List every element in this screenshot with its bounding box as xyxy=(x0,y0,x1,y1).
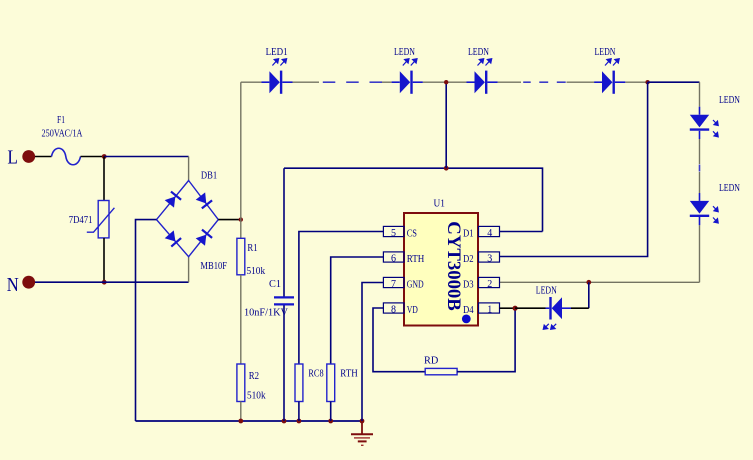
IC U1 CYT3000B body xyxy=(404,198,478,325)
svg-text:510k: 510k xyxy=(247,391,266,402)
varistor RV 7D471 xyxy=(69,201,115,238)
diode D-BL of bridge xyxy=(164,230,181,247)
diode D-BR of bridge xyxy=(195,230,212,246)
wire LEDN bottom to junction column xyxy=(571,307,589,309)
svg-text:10nF/1KV: 10nF/1KV xyxy=(244,308,289,319)
svg-text:3: 3 xyxy=(487,253,492,264)
wire junction down to LED cathode row xyxy=(588,282,590,308)
wire bridge top stub xyxy=(188,157,190,182)
junction LED row mid xyxy=(444,80,448,84)
wire bridge right to junction xyxy=(218,219,241,221)
wire varistor top lead xyxy=(103,157,105,201)
svg-text:L: L xyxy=(7,147,18,169)
svg-text:LED1: LED1 xyxy=(266,47,288,58)
svg-text:2: 2 xyxy=(487,279,492,290)
svg-text:D4: D4 xyxy=(463,304,474,316)
pin box 7 xyxy=(383,277,404,289)
wire tap up to LED row xyxy=(445,82,447,168)
svg-text:7: 7 xyxy=(391,279,396,290)
wire pin1 to LEDN bottom xyxy=(515,307,545,309)
svg-text:LEDN: LEDN xyxy=(595,47,616,58)
junction LED row tap xyxy=(444,166,449,171)
svg-text:LEDN: LEDN xyxy=(468,47,489,58)
svg-text:LEDN: LEDN xyxy=(719,95,740,106)
svg-text:C1: C1 xyxy=(269,279,281,290)
wire C1 top to D1 column xyxy=(284,168,543,231)
svg-text:RC8: RC8 xyxy=(308,368,323,379)
svg-text:MB10F: MB10F xyxy=(200,261,227,272)
dashed wire segment 1 xyxy=(323,81,382,83)
svg-text:RTH: RTH xyxy=(407,253,425,265)
svg-text:F1: F1 xyxy=(57,115,65,126)
svg-text:GND: GND xyxy=(407,278,424,290)
svg-text:6: 6 xyxy=(391,253,396,264)
svg-text:D1: D1 xyxy=(463,227,474,239)
junction rail R2 xyxy=(238,419,243,424)
svg-text:4: 4 xyxy=(487,228,492,239)
terminal L xyxy=(7,147,35,169)
pin box 5 xyxy=(383,226,404,238)
svg-text:RTH: RTH xyxy=(340,368,358,379)
junction rail ground xyxy=(360,419,365,424)
svg-text:VD: VD xyxy=(407,304,418,316)
wire D3 row (pin2 to right string) xyxy=(500,281,700,283)
junction LED row right xyxy=(645,80,649,84)
wire fuse to junction xyxy=(81,156,105,158)
svg-text:R2: R2 xyxy=(249,371,259,382)
LED LEDN right1 xyxy=(690,95,740,139)
LED LEDN top2 xyxy=(392,47,423,94)
junction rail RTH xyxy=(328,419,333,424)
fuse F1 xyxy=(42,115,84,165)
LED LEDN right2 xyxy=(690,183,740,225)
svg-text:8: 8 xyxy=(391,304,396,315)
svg-text:1: 1 xyxy=(487,304,492,315)
svg-text:LEDN: LEDN xyxy=(394,47,415,58)
dashed wire segment 2 xyxy=(523,81,566,83)
LED LEDN bottom xyxy=(536,286,571,330)
svg-text:D2: D2 xyxy=(463,253,474,265)
svg-text:5: 5 xyxy=(391,228,396,239)
junction bridge plus node xyxy=(239,217,243,221)
junction pin1 node xyxy=(513,306,518,311)
svg-text:7D471: 7D471 xyxy=(69,215,93,226)
bridge rectifier DB1 diamond xyxy=(157,171,228,272)
ground rail xyxy=(136,420,363,422)
wire pin8 VD to RD xyxy=(373,308,425,372)
junction L-varistor xyxy=(102,154,107,159)
svg-text:LEDN: LEDN xyxy=(536,286,557,297)
wire RTH to rail xyxy=(330,402,332,422)
wire L to fuse xyxy=(35,156,52,158)
svg-text:LEDN: LEDN xyxy=(719,183,740,194)
pin box 8 xyxy=(383,303,404,315)
resistor RTH xyxy=(327,364,358,402)
junction rail RC8 xyxy=(297,419,302,424)
svg-text:DB1: DB1 xyxy=(201,171,217,182)
pin box 2 xyxy=(479,277,500,289)
svg-text:N: N xyxy=(7,274,19,296)
wire bridge bottom stub xyxy=(188,257,190,283)
wire pin5 CS xyxy=(299,232,384,365)
wire pin4 to D1 column xyxy=(500,231,543,233)
resistor R2 510k xyxy=(237,364,266,402)
junction rail C1 xyxy=(282,419,287,424)
IC pin1 marker dot xyxy=(462,315,471,324)
pin box 3 xyxy=(479,252,500,264)
wire plus column up to LED row xyxy=(240,82,242,219)
pin box 6 xyxy=(383,252,404,264)
wire RC8 to rail xyxy=(298,402,300,422)
wire varistor bottom lead xyxy=(103,238,105,282)
svg-text:CS: CS xyxy=(407,227,417,239)
wire junction to bridge top column xyxy=(104,156,188,158)
LED LEDN top3 xyxy=(467,47,498,94)
wire D2 column xyxy=(500,82,648,256)
right string vertical wires xyxy=(699,82,701,282)
wire N line xyxy=(35,281,189,283)
wire plus to R1 xyxy=(240,220,242,239)
svg-text:D3: D3 xyxy=(463,278,474,290)
ground symbol xyxy=(351,421,373,445)
svg-text:R1: R1 xyxy=(247,243,257,254)
resistor RD xyxy=(424,356,457,375)
svg-text:510k: 510k xyxy=(247,266,266,277)
capacitor C1 10nF/1KV xyxy=(244,168,294,421)
pin box 4 xyxy=(479,226,500,238)
LED LEDN top4 xyxy=(594,47,625,94)
svg-text:RD: RD xyxy=(424,356,438,367)
wire LED row to right string corner xyxy=(648,81,700,83)
dashed wire right string xyxy=(699,165,701,172)
wire pin1 stub xyxy=(500,307,516,309)
junction N-varistor xyxy=(102,280,107,285)
wire R1 to R2 xyxy=(240,275,242,364)
diode D-TR of bridge xyxy=(195,192,212,208)
diode D-TL of bridge xyxy=(164,192,181,208)
resistor RC8 xyxy=(295,364,324,402)
svg-text:U1: U1 xyxy=(434,198,445,209)
wire RD to pin1 column xyxy=(457,308,515,372)
wire R2 to rail xyxy=(240,402,242,422)
wire bridge left elbow xyxy=(136,220,157,421)
svg-text:250VAC/1A: 250VAC/1A xyxy=(42,128,84,139)
top LED row wires xyxy=(241,81,648,83)
wire pin7 GND to ground xyxy=(362,283,383,422)
svg-text:CYT3000B: CYT3000B xyxy=(443,221,464,311)
resistor R1 510k xyxy=(237,238,265,277)
junction D3 row xyxy=(586,280,591,285)
LED LED1 xyxy=(262,47,293,94)
pin box 1 xyxy=(479,303,500,315)
wire pin6 RTH xyxy=(331,257,384,364)
terminal N xyxy=(7,274,35,296)
